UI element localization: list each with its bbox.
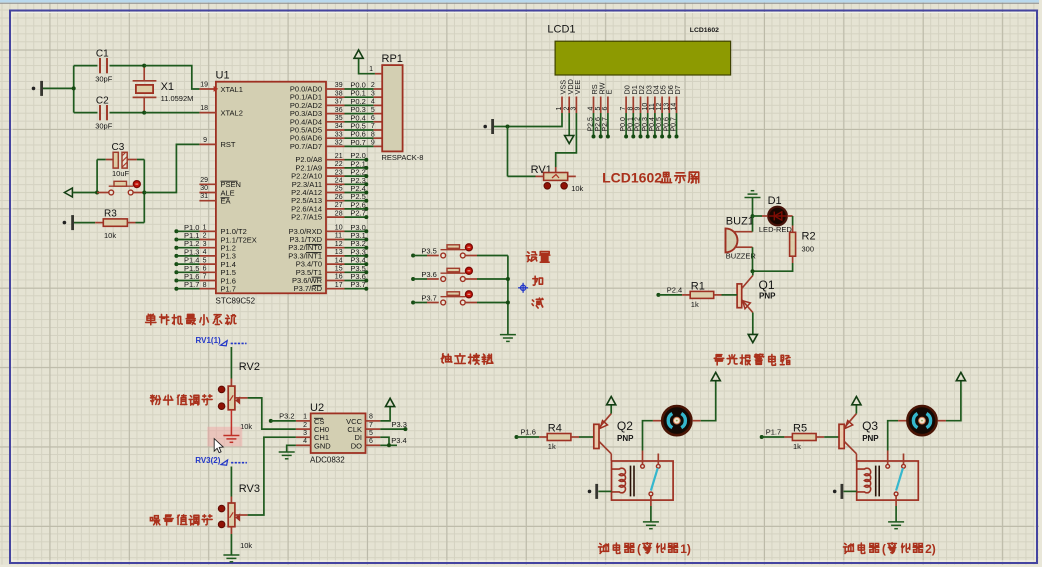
terminal P1.6 xyxy=(515,435,519,439)
potentiometer RV2 (10k) xyxy=(218,386,225,393)
left vertical rail xyxy=(73,66,75,113)
svg-text:21: 21 xyxy=(335,153,343,160)
transistor Q1 (PNP) xyxy=(752,271,754,275)
svg-text:P3.7: P3.7 xyxy=(421,293,436,302)
svg-text:RV3: RV3 xyxy=(239,483,260,495)
transistor Q3 (PNP) xyxy=(839,424,844,448)
wire GND pin to ground xyxy=(287,445,296,452)
svg-text:P2.5: P2.5 xyxy=(588,117,595,132)
svg-text:P3.2: P3.2 xyxy=(279,411,294,420)
relay coil xyxy=(612,468,626,493)
svg-text:36: 36 xyxy=(335,107,343,114)
svg-text:RESPACK-8: RESPACK-8 xyxy=(382,153,424,162)
wire Q2 collector to relay xyxy=(610,454,612,461)
wire to XTAL2 xyxy=(144,112,199,114)
svg-text:P0.5: P0.5 xyxy=(656,117,663,132)
motor M2 xyxy=(898,420,906,422)
wire buzzer bottom to collector xyxy=(752,247,754,271)
svg-text:P3.3: P3.3 xyxy=(392,420,407,429)
input terminal arrow left xyxy=(64,188,72,197)
svg-text:4: 4 xyxy=(371,99,375,106)
svg-text:RP1: RP1 xyxy=(382,53,403,65)
text noise adjust xyxy=(150,516,160,525)
text relay atomizer 1 xyxy=(599,543,609,553)
svg-text:LCD1602: LCD1602 xyxy=(690,27,719,34)
svg-text:R2: R2 xyxy=(802,231,816,243)
svg-text:8: 8 xyxy=(371,131,375,138)
power terminal motor xyxy=(711,372,720,380)
wire Q3 collector to relay xyxy=(856,454,858,461)
wire motor to power xyxy=(701,381,716,421)
svg-text:RV1(1): RV1(1) xyxy=(196,336,222,345)
junction bus row2 xyxy=(506,277,510,281)
svg-text:6: 6 xyxy=(371,115,375,122)
svg-text:10: 10 xyxy=(642,103,649,111)
wire VSS rail down xyxy=(507,127,509,177)
RV1 right stub xyxy=(568,175,576,177)
relay NO contact xyxy=(902,464,906,468)
RV3 bottom ground xyxy=(230,527,232,534)
junction X1 top xyxy=(142,64,146,68)
potentiometer RV3 (10k) xyxy=(218,505,225,512)
wire C1 row xyxy=(74,65,98,67)
wire to ground xyxy=(895,506,897,522)
svg-text:1k: 1k xyxy=(691,300,699,309)
pin 16 P3.6 with net label xyxy=(326,280,345,282)
pin 30 ALE xyxy=(199,192,216,194)
svg-text:(: ( xyxy=(637,542,641,556)
U2 pin 8 VCC to power xyxy=(366,420,381,422)
pin 22 P2.1 with net label xyxy=(326,167,345,169)
junction rail-ground xyxy=(72,86,76,90)
wire to ground xyxy=(650,506,652,522)
svg-text:2: 2 xyxy=(303,422,307,429)
svg-text:5: 5 xyxy=(595,107,602,111)
pin 11 P3.1 with net label xyxy=(326,239,345,241)
svg-text:12: 12 xyxy=(335,241,343,248)
pin 28 P2.7 with net label xyxy=(326,216,345,218)
svg-text:P0.0: P0.0 xyxy=(620,117,627,132)
svg-text:4: 4 xyxy=(303,438,307,445)
svg-text:28: 28 xyxy=(335,210,343,217)
pin 15 P3.5 with net label xyxy=(326,271,345,273)
power terminal Q2 emitter xyxy=(610,405,612,414)
svg-text:6: 6 xyxy=(602,107,609,111)
text MCU minimal system xyxy=(146,314,156,324)
svg-text:XTAL1: XTAL1 xyxy=(221,85,243,94)
svg-text:C3: C3 xyxy=(112,142,125,153)
svg-text:9: 9 xyxy=(635,107,642,111)
crystal X1 xyxy=(143,66,145,81)
svg-text:P3.7: P3.7 xyxy=(350,280,365,289)
svg-text:P3.6: P3.6 xyxy=(421,270,436,279)
svg-text:10k: 10k xyxy=(240,541,252,550)
pin 14 P3.4 with net label xyxy=(326,263,345,265)
svg-text:27: 27 xyxy=(335,202,343,209)
wire to XTAL1 xyxy=(144,66,199,89)
svg-text:P2.6: P2.6 xyxy=(595,117,602,132)
svg-text:4: 4 xyxy=(588,107,595,111)
RP1 pin 1 wire to power xyxy=(375,73,382,75)
svg-text:P0.6: P0.6 xyxy=(663,117,670,132)
relay blade (cyan) xyxy=(896,468,903,490)
button actuator red dot xyxy=(133,181,140,188)
svg-text:1k: 1k xyxy=(548,442,556,451)
relay bottom contact xyxy=(894,492,898,496)
button bus wire xyxy=(507,256,509,335)
svg-text:DO: DO xyxy=(351,441,362,450)
junction VSS ground xyxy=(506,125,510,129)
svg-text:35: 35 xyxy=(335,115,343,122)
svg-text:3: 3 xyxy=(203,241,207,248)
svg-text:P1.6: P1.6 xyxy=(521,427,536,436)
svg-text:10k: 10k xyxy=(104,231,116,240)
power terminal motor xyxy=(956,372,965,380)
svg-text:33: 33 xyxy=(335,131,343,138)
resistor R4 (1k) xyxy=(517,436,540,438)
svg-text:LCD1602: LCD1602 xyxy=(602,170,662,186)
push button P3.5 xyxy=(411,254,415,258)
ground terminal R3 xyxy=(63,221,67,225)
svg-text:8: 8 xyxy=(369,414,373,421)
svg-text:LED-RED: LED-RED xyxy=(759,225,793,234)
svg-text:22: 22 xyxy=(335,161,343,168)
pin 8 P1.7 with terminal xyxy=(174,287,178,291)
wire C2 row xyxy=(74,112,98,114)
text alarm circuit xyxy=(714,355,724,365)
wire LED to R2 xyxy=(787,215,792,217)
relay NO contact xyxy=(656,464,660,468)
capacitor C1 xyxy=(100,58,107,73)
pin 32 P0.7/AD7 with wire to RP1 pin 9 xyxy=(326,145,345,147)
power terminal VDD (down arrow) xyxy=(568,113,570,136)
junction buzzer-LED xyxy=(751,214,755,218)
svg-text:11: 11 xyxy=(335,233,342,240)
svg-text:24: 24 xyxy=(335,178,343,185)
svg-text:PNP: PNP xyxy=(759,292,776,301)
ground terminal relay coil xyxy=(588,490,592,494)
push button RESET xyxy=(97,192,109,194)
wire emitter down xyxy=(752,313,754,335)
svg-text:13: 13 xyxy=(335,249,343,256)
wire common to motor xyxy=(643,421,653,451)
svg-text:3: 3 xyxy=(371,90,375,97)
wire junction to LED xyxy=(753,215,763,217)
sheet top bar xyxy=(0,0,1042,3)
pin 13 P3.3 with net label xyxy=(326,255,345,257)
svg-text:P0.2: P0.2 xyxy=(635,117,642,132)
svg-text:1: 1 xyxy=(369,66,373,73)
svg-text:P2.4: P2.4 xyxy=(667,286,682,295)
wire R2 bottom xyxy=(792,256,794,263)
svg-text:(: ( xyxy=(882,542,886,556)
svg-text:R1: R1 xyxy=(691,280,705,292)
pin 9 RST xyxy=(199,143,216,145)
svg-text:34: 34 xyxy=(335,123,343,130)
pin 35 P0.4/AD4 with wire to RP1 pin 6 xyxy=(326,121,345,123)
svg-text:7: 7 xyxy=(620,107,627,111)
svg-text:P1.7: P1.7 xyxy=(221,285,236,294)
svg-text:P2.7: P2.7 xyxy=(350,209,365,218)
wire RV1(1) down to RV2 xyxy=(230,347,232,379)
push button P3.7 xyxy=(411,301,415,305)
svg-text:12: 12 xyxy=(656,103,663,111)
svg-text:5: 5 xyxy=(371,107,375,114)
svg-text:10uF: 10uF xyxy=(112,169,130,178)
push button P3.6 xyxy=(411,277,415,281)
pin 10 P3.0 with net label xyxy=(326,230,345,232)
ground terminal LCD xyxy=(483,125,487,129)
svg-text:P0.7/AD7: P0.7/AD7 xyxy=(290,142,322,151)
svg-text:30: 30 xyxy=(200,185,208,192)
svg-text:9: 9 xyxy=(371,140,375,147)
resistor R5 (1k) xyxy=(762,436,785,438)
outside-sheet plain margins xyxy=(1039,0,1042,567)
pin 26 P2.5 with net label xyxy=(326,200,345,202)
terminal P1.7 xyxy=(760,435,764,439)
power terminal down (Q1 emitter) xyxy=(748,334,757,342)
pin 29 PSEN xyxy=(199,183,216,185)
svg-text:30pF: 30pF xyxy=(95,122,113,131)
wire button to RST xyxy=(144,144,199,192)
svg-text:16: 16 xyxy=(335,274,343,281)
wire buzzer top xyxy=(752,216,754,232)
pin 24 P2.3 with net label xyxy=(326,183,345,185)
RV2 bottom to selected ground xyxy=(207,427,242,447)
svg-text:P0.7: P0.7 xyxy=(671,117,678,132)
U2 pin 1 CS xyxy=(296,420,311,422)
svg-text:7: 7 xyxy=(371,123,375,130)
U2 pin 3 CH1 xyxy=(296,436,311,438)
motor M1 xyxy=(653,420,661,422)
text relay atomizer 2 xyxy=(843,543,853,553)
pin 6 P1.5 with terminal xyxy=(174,270,178,274)
svg-text:2: 2 xyxy=(203,233,207,240)
pin 4 P1.3 with terminal xyxy=(174,254,178,258)
svg-text:10: 10 xyxy=(335,225,343,232)
svg-text:11.0592M: 11.0592M xyxy=(161,94,194,103)
svg-text:10k: 10k xyxy=(571,184,583,193)
svg-text:RV2: RV2 xyxy=(239,361,260,373)
wire C3 row xyxy=(106,159,113,161)
wire motor to power xyxy=(946,381,961,421)
left reset rail xyxy=(96,160,98,193)
svg-text:7: 7 xyxy=(203,274,207,281)
svg-text:37: 37 xyxy=(335,99,343,106)
svg-text:23: 23 xyxy=(335,169,343,176)
U2 pin 4 GND xyxy=(296,444,311,446)
svg-text:13: 13 xyxy=(663,103,670,111)
wire RV3 wiper to CH1 xyxy=(235,514,248,516)
resistor R3 (10k) xyxy=(95,222,103,224)
pin 2 P1.1 with terminal xyxy=(174,238,178,242)
wire VSS to ground xyxy=(508,113,563,127)
text dust adjust xyxy=(150,395,160,404)
svg-text:Q2: Q2 xyxy=(617,419,633,433)
svg-text:2: 2 xyxy=(563,107,570,111)
svg-text:E: E xyxy=(605,90,614,95)
svg-text:25: 25 xyxy=(335,186,343,193)
resistor R2 (300) xyxy=(790,232,796,256)
relay coil box M1 xyxy=(612,461,674,500)
junction collector xyxy=(751,269,755,273)
junction X1 bottom xyxy=(142,111,146,115)
relay common contact xyxy=(642,451,644,465)
U2 pin 6 DO to P3.4 xyxy=(366,444,381,446)
relay blade (cyan) xyxy=(651,468,658,490)
pin 1 P1.0 with terminal xyxy=(174,229,178,233)
text 加 xyxy=(533,276,543,285)
pin 3 P1.2 with terminal xyxy=(174,246,178,250)
transistor Q2 (PNP) xyxy=(594,424,599,448)
power terminal Q3 emitter xyxy=(855,405,857,414)
svg-text:18: 18 xyxy=(200,105,208,112)
wire RV2 wiper to CH0 xyxy=(235,397,248,399)
svg-text:ADC0832: ADC0832 xyxy=(310,456,345,465)
text independent buttons xyxy=(441,354,452,363)
ground buttons xyxy=(500,335,516,342)
svg-text:3: 3 xyxy=(571,107,578,111)
svg-text:7: 7 xyxy=(369,422,373,429)
ground terminal inverted (buzzer top) xyxy=(745,191,761,198)
svg-text:U1: U1 xyxy=(216,70,230,82)
svg-text:8: 8 xyxy=(627,107,634,111)
power terminal above RP1 xyxy=(354,50,363,58)
resistor R1 (1k) xyxy=(658,294,682,296)
svg-text:VEE: VEE xyxy=(573,80,582,95)
svg-text:R5: R5 xyxy=(793,422,807,434)
svg-text:D1: D1 xyxy=(768,195,782,207)
svg-text:GND: GND xyxy=(314,441,331,450)
terminal P3.2 xyxy=(269,419,273,423)
pin 7 P1.6 with terminal xyxy=(174,279,178,283)
svg-text:14: 14 xyxy=(671,103,678,111)
relay coil xyxy=(857,468,871,493)
resistor pack RP1 body xyxy=(382,65,402,151)
pin 12 P3.2 with net label xyxy=(326,247,345,249)
svg-text:31: 31 xyxy=(200,193,208,200)
pin 37 P0.2/AD2 with wire to RP1 pin 4 xyxy=(326,104,345,106)
svg-text:P3.4: P3.4 xyxy=(391,436,406,445)
svg-text:29: 29 xyxy=(200,177,208,184)
svg-text:P0.3: P0.3 xyxy=(642,117,649,132)
pin 23 P2.2 with net label xyxy=(326,175,345,177)
svg-text:2): 2) xyxy=(925,542,936,556)
text 减 xyxy=(532,298,543,308)
capacitor C2 xyxy=(100,105,107,120)
svg-text:XTAL2: XTAL2 xyxy=(221,108,243,117)
svg-text:PNP: PNP xyxy=(617,434,634,443)
svg-text:C1: C1 xyxy=(96,49,109,60)
svg-text:6: 6 xyxy=(369,438,373,445)
svg-text:PNP: PNP xyxy=(862,434,879,443)
svg-text:U2: U2 xyxy=(310,402,324,414)
svg-text:X1: X1 xyxy=(161,81,174,93)
pin 31 EA xyxy=(199,200,216,202)
pin 38 P0.1/AD1 with wire to RP1 pin 3 xyxy=(326,96,345,98)
svg-text:14: 14 xyxy=(335,257,343,264)
svg-text:R3: R3 xyxy=(104,209,117,220)
svg-text:P1.7: P1.7 xyxy=(184,280,199,289)
svg-text:STC89C52: STC89C52 xyxy=(216,297,256,306)
svg-text:2: 2 xyxy=(371,82,375,89)
svg-text:19: 19 xyxy=(200,82,208,89)
relay core xyxy=(875,466,877,497)
svg-text:6: 6 xyxy=(203,266,207,273)
terminal P2.4 xyxy=(656,293,660,297)
relay coil box M2 xyxy=(857,461,919,500)
buzzer pins xyxy=(733,231,752,233)
relay core xyxy=(630,466,632,497)
svg-text:1): 1) xyxy=(680,542,691,556)
pin 33 P0.6/AD6 with wire to RP1 pin 8 xyxy=(326,137,345,139)
svg-text:5: 5 xyxy=(203,257,207,264)
U2 pin 2 CH0 xyxy=(296,428,311,430)
svg-text:8: 8 xyxy=(203,282,207,289)
svg-text:15: 15 xyxy=(335,266,343,273)
U2 pin 5 DI xyxy=(366,436,381,438)
ADC U2 body (ADC0832) xyxy=(311,413,366,453)
svg-text:3: 3 xyxy=(303,430,307,437)
svg-text:D7: D7 xyxy=(673,85,682,94)
pin 36 P0.3/AD3 with wire to RP1 pin 5 xyxy=(326,113,345,115)
wire VEE to RV1 wiper xyxy=(556,113,577,167)
svg-text:P0.4: P0.4 xyxy=(649,117,656,132)
svg-text:RST: RST xyxy=(221,140,236,149)
junction button left xyxy=(95,191,99,195)
svg-text:P3.5: P3.5 xyxy=(421,246,436,255)
svg-text:26: 26 xyxy=(335,194,343,201)
relay bottom contact xyxy=(649,492,653,496)
svg-text:Q3: Q3 xyxy=(862,419,878,433)
wire RV3(2) down to RV3 xyxy=(230,467,232,497)
pin 5 P1.4 with terminal xyxy=(174,262,178,266)
right reset rail xyxy=(143,160,145,223)
svg-text:P2.7: P2.7 xyxy=(602,117,609,132)
svg-text:P0.1: P0.1 xyxy=(627,117,634,132)
U2 pin 7 CLK to P3.3 xyxy=(366,428,381,430)
svg-text:R4: R4 xyxy=(548,422,562,434)
svg-text:RV3(2): RV3(2) xyxy=(195,456,221,465)
svg-text:30pF: 30pF xyxy=(95,75,113,84)
svg-text:P1.7: P1.7 xyxy=(766,427,781,436)
svg-text:1: 1 xyxy=(556,107,563,111)
svg-text:LCD1: LCD1 xyxy=(547,24,575,36)
pin 18 XTAL2 xyxy=(199,112,216,114)
junction button right xyxy=(142,191,146,195)
op-amp U1 body (STC89C52 MCU) xyxy=(216,82,326,294)
svg-text:C2: C2 xyxy=(96,96,109,107)
wire common to motor xyxy=(888,421,898,451)
svg-text:1: 1 xyxy=(303,414,307,421)
svg-text:1k: 1k xyxy=(793,442,801,451)
svg-text:1: 1 xyxy=(203,225,207,232)
svg-text:BUZ1: BUZ1 xyxy=(726,216,754,228)
pin 25 P2.4 with net label xyxy=(326,192,345,194)
pin 27 P2.6 with net label xyxy=(326,208,345,210)
svg-text:11: 11 xyxy=(649,103,656,110)
pin 39 P0.0/AD0 with wire to RP1 pin 2 xyxy=(326,88,345,90)
pin 21 P2.0 with net label xyxy=(326,159,345,161)
svg-text:4: 4 xyxy=(203,249,207,256)
wire RV1 left xyxy=(536,175,544,177)
svg-text:17: 17 xyxy=(335,282,343,289)
svg-text:32: 32 xyxy=(335,140,343,147)
pin 17 P3.7 with net label xyxy=(326,288,345,290)
ground terminal top-left xyxy=(32,87,36,91)
pin 34 P0.5/AD5 with wire to RP1 pin 7 xyxy=(326,129,345,131)
svg-text:300: 300 xyxy=(802,245,815,254)
